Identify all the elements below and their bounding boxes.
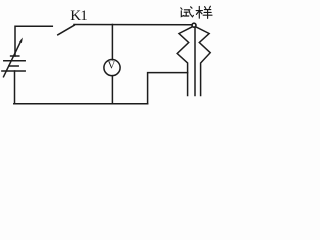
voltmeter bottom lead — [111, 76, 113, 104]
voltmeter V1 circle — [104, 60, 120, 76]
label 试样 (drawn strokes) — [181, 6, 212, 18]
switch K1 blade — [58, 25, 75, 35]
wire top horizontal to node — [74, 24, 192, 26]
specimen center shaft — [194, 27, 196, 95]
arrowhead of variable source — [19, 38, 23, 44]
battery bottom lead — [14, 71, 16, 104]
battery plate short top — [11, 55, 19, 57]
试 char — [181, 7, 194, 17]
battery plate short — [9, 65, 18, 67]
battery plate long — [4, 60, 25, 62]
battery plate long bottom — [2, 70, 25, 72]
svg-text:1: 1 — [80, 8, 88, 24]
bottom wire — [14, 103, 148, 105]
样 char — [196, 6, 212, 18]
wire top-left vertical — [15, 26, 52, 56]
specimen left lightning electrode — [177, 27, 192, 96]
svg-text:V: V — [108, 61, 116, 72]
variable arrow shaft — [4, 41, 22, 77]
specimen right lightning electrode — [196, 27, 211, 96]
node terminal circle — [192, 23, 196, 27]
right riser wire — [148, 73, 188, 104]
voltmeter top lead — [111, 25, 113, 60]
